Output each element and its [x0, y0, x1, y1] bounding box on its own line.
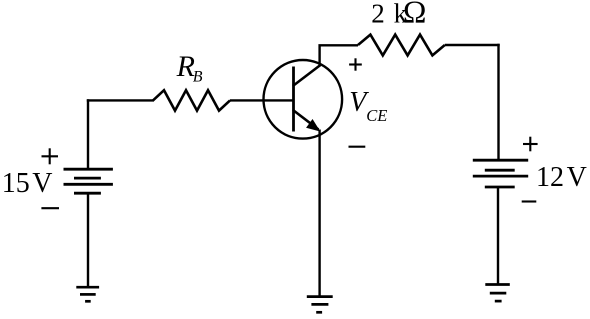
ground left [76, 287, 99, 301]
battery V2 plate long bottom [473, 175, 528, 178]
transistor Q1 emitter arrowhead [307, 120, 319, 131]
wire: right vertical down to battery V2 [497, 44, 499, 160]
label VCE plus sign [349, 58, 362, 70]
transistor Q1 collector stroke [293, 65, 321, 86]
battery V1 plate short [74, 177, 101, 180]
battery V2 minus sign [522, 200, 537, 202]
svg-text:15: 15 [2, 168, 30, 199]
transistor Q1 emitter stroke [293, 110, 319, 130]
ground right [485, 285, 510, 302]
svg-text:V: V [32, 168, 52, 199]
svg-text:12: 12 [536, 162, 564, 193]
label VCE minus sign [349, 146, 366, 148]
svg-text:V: V [567, 162, 587, 193]
transistor Q1 circle [264, 60, 343, 139]
battery V1 plus sign [42, 148, 59, 164]
wire: collector up and across to resistor RC [320, 45, 358, 66]
battery V2 12V plate long top [473, 159, 528, 162]
wire: battery V1 to left ground [87, 193, 89, 287]
svg-text:Ω: Ω [403, 0, 426, 30]
wire: emitter down to middle ground [318, 130, 320, 297]
battery V1 plate short bottom [74, 192, 101, 195]
wire: battery V1 top to base-loop corner [87, 99, 89, 169]
wire: resistor RB to transistor base [230, 99, 294, 101]
resistor RC 2k zigzag [358, 35, 445, 56]
battery V1 15V plate long top [64, 168, 113, 171]
svg-text:CE: CE [366, 106, 387, 125]
svg-text:B: B [193, 69, 203, 86]
wire: battery V2 to right ground [497, 187, 499, 285]
wire: resistor RC to right corner [445, 44, 500, 46]
resistor RB zigzag [153, 90, 230, 110]
battery V2 plate short [485, 169, 515, 172]
battery V1 minus sign [41, 207, 59, 209]
svg-text:2: 2 [371, 0, 385, 28]
ground middle [307, 297, 333, 313]
battery V2 plus sign [523, 137, 538, 152]
transistor Q1 base bar [292, 67, 295, 132]
wire: horizontal run from corner to resistor RB [87, 99, 154, 101]
battery V2 plate short bottom [485, 186, 515, 189]
battery V1 plate long bottom [64, 183, 113, 186]
